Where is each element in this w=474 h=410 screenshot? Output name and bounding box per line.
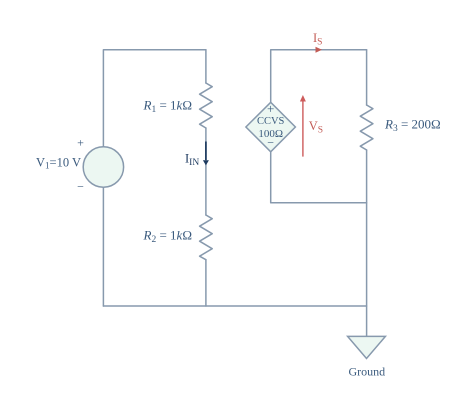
- voltage source V1: [83, 147, 123, 187]
- resistor R2: [200, 215, 213, 260]
- svg-text:−: −: [77, 180, 84, 194]
- svg-text:+: +: [267, 101, 274, 116]
- wire V1 top lead to top rail: [103, 50, 205, 147]
- resistor R1: [200, 83, 213, 128]
- svg-text:V1=10 V: V1=10 V: [36, 156, 81, 171]
- dependent source U1 CCVS diamond: [246, 102, 296, 152]
- wire R3 top lead: [366, 50, 368, 105]
- wire R2 bottom lead: [205, 260, 207, 306]
- wire bottom rail: [103, 305, 366, 307]
- svg-text:+: +: [77, 136, 84, 150]
- svg-text:R2 = 1kΩ: R2 = 1kΩ: [143, 228, 193, 246]
- svg-text:Ground: Ground: [348, 365, 385, 379]
- svg-text:R3 = 200Ω: R3 = 200Ω: [384, 117, 441, 135]
- ground: [348, 336, 386, 358]
- svg-text:VS: VS: [309, 119, 323, 136]
- wire V1 bottom lead: [102, 187, 104, 306]
- resistor R3: [360, 105, 373, 150]
- wire R1 top lead: [205, 50, 207, 83]
- wire node IN between R1 and R2: [205, 128, 207, 215]
- svg-text:R1 = 1kΩ: R1 = 1kΩ: [143, 98, 193, 116]
- current arrow IIN: [203, 142, 209, 166]
- wire CCVS bottom lead: [271, 152, 367, 203]
- current arrow IS: [316, 47, 323, 53]
- wire R3 bottom to ground: [366, 150, 368, 336]
- wire CCVS top lead: [271, 50, 367, 103]
- svg-text:IIN: IIN: [185, 152, 199, 169]
- voltage arrow VS: [300, 95, 306, 157]
- svg-text:CCVS: CCVS: [257, 116, 285, 127]
- svg-text:−: −: [267, 135, 274, 149]
- svg-text:IS: IS: [313, 31, 322, 48]
